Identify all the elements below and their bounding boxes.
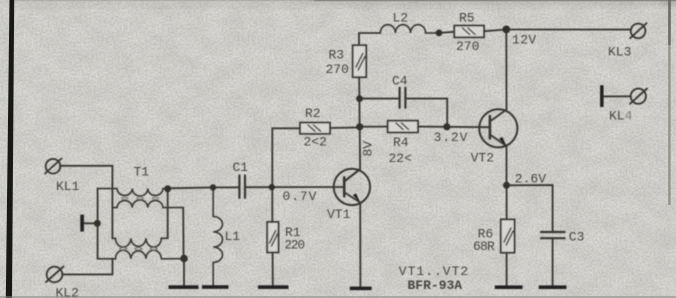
wire R6 to ground bbox=[506, 253, 508, 286]
ground under T1 bbox=[169, 285, 199, 289]
inductor L2 bbox=[380, 25, 439, 33]
capacitor C4 wire right bbox=[405, 99, 447, 127]
ground (sideways) at KL4 bbox=[600, 85, 604, 107]
resistor R1 bbox=[267, 187, 278, 285]
svg-text:R2: R2 bbox=[305, 106, 321, 121]
wire R3 column top bbox=[359, 33, 380, 45]
node 12V dot bbox=[502, 26, 510, 34]
svg-text:C4: C4 bbox=[392, 73, 408, 88]
ground under VT1 bbox=[350, 287, 372, 291]
svg-text:270: 270 bbox=[456, 39, 479, 54]
scan edge: left black bar bbox=[6, 0, 14, 298]
wire R6 stem bbox=[506, 185, 508, 219]
svg-text:L2: L2 bbox=[393, 10, 409, 25]
transistor VT1 bbox=[334, 169, 370, 205]
transistor VT2 bbox=[479, 109, 517, 147]
wire KL1 to T1 bbox=[60, 166, 112, 239]
node B dot bbox=[180, 255, 188, 263]
svg-text:270: 270 bbox=[326, 62, 349, 77]
scan edge: top-right corner patch bbox=[664, 0, 676, 5]
svg-text:C1: C1 bbox=[233, 160, 249, 175]
wire collector VT1 bbox=[345, 127, 361, 181]
transformer T1 winding 1a (upper-top) bbox=[98, 189, 168, 196]
wire R2 riser bbox=[272, 128, 300, 186]
wire node to R4 bbox=[360, 126, 388, 128]
node 3.2V dot bbox=[443, 123, 450, 130]
svg-text:KL2: KL2 bbox=[56, 285, 79, 298]
wire 2.6V node to C3 bbox=[507, 185, 553, 232]
resistor R2 bbox=[300, 123, 330, 134]
svg-text:R5: R5 bbox=[459, 10, 475, 25]
svg-text:8V: 8V bbox=[361, 141, 376, 157]
wire R3 bottom to junctions bbox=[358, 77, 360, 127]
wire VT2 emitter down bbox=[506, 146, 508, 185]
svg-text:220: 220 bbox=[285, 238, 305, 252]
capacitor C3 bbox=[541, 232, 565, 238]
svg-text:VT1..VT2: VT1..VT2 bbox=[399, 264, 469, 279]
resistor R4 bbox=[388, 121, 418, 133]
wire node B to ground bbox=[183, 259, 185, 286]
svg-text:VT2: VT2 bbox=[471, 151, 494, 166]
svg-text:22<: 22< bbox=[389, 151, 413, 166]
wire main base rail bbox=[168, 187, 240, 188]
wire R4 to VT2 base bbox=[418, 126, 490, 129]
ground under R1 bbox=[258, 285, 289, 289]
wire node A drop bbox=[167, 189, 169, 238]
node base VT1 dot bbox=[269, 184, 275, 190]
svg-text:BFR-93A: BFR-93A bbox=[408, 278, 463, 293]
wire VT2 collector bbox=[490, 30, 506, 122]
wire VT1 emitter to ground bbox=[359, 202, 361, 286]
ground under R6 bbox=[495, 285, 523, 289]
svg-text:T1: T1 bbox=[134, 164, 150, 179]
ground (sideways) at T1 tap bbox=[80, 215, 84, 232]
terminal KL2 bbox=[46, 267, 64, 283]
T1 core scan artifacts upper bbox=[122, 197, 159, 199]
svg-text:12V: 12V bbox=[512, 33, 537, 48]
node 2.6V dot bbox=[503, 182, 510, 189]
inductor L1 bbox=[213, 187, 222, 285]
svg-text:VT1: VT1 bbox=[327, 207, 351, 222]
svg-text:R3: R3 bbox=[329, 47, 345, 62]
terminal KL3 bbox=[630, 23, 646, 38]
terminal KL4 bbox=[630, 89, 647, 104]
ground under C3 bbox=[539, 285, 567, 289]
resistor R5 bbox=[454, 26, 484, 38]
transformer T1 winding 2b (lower-bottom) bbox=[98, 250, 184, 259]
node A dot bbox=[164, 185, 171, 192]
scan edge: bottom line bbox=[0, 296, 676, 297]
capacitor C4 wire left bbox=[360, 98, 400, 100]
node tap dot bbox=[94, 220, 101, 227]
svg-text:L1: L1 bbox=[225, 229, 241, 244]
resistor R3 bbox=[353, 45, 367, 77]
svg-text:0.7V: 0.7V bbox=[283, 189, 318, 204]
transformer T1 winding 1b (upper-bottom) bbox=[112, 200, 183, 208]
capacitor C1 bbox=[239, 176, 245, 198]
svg-text:2<2: 2<2 bbox=[304, 135, 327, 150]
wire L2 to R5 bbox=[439, 32, 454, 33]
resistor R6 bbox=[501, 219, 515, 252]
transformer T1 winding 2a (lower-top) bbox=[112, 238, 167, 247]
svg-text:KL3: KL3 bbox=[608, 44, 631, 59]
scan edge: top thin line bbox=[14, 0, 314, 1]
wire tap vertical bbox=[97, 188, 99, 258]
svg-text:3.2V: 3.2V bbox=[434, 130, 469, 145]
wire KL4 bbox=[604, 95, 631, 97]
wire R5 to 12V rail and KL3 bbox=[484, 30, 631, 32]
svg-text:KL1: KL1 bbox=[56, 179, 80, 194]
node L1 top dot bbox=[210, 184, 216, 190]
capacitor C4 bbox=[400, 88, 406, 108]
wire R2 to node bbox=[330, 126, 360, 129]
svg-text:R4: R4 bbox=[393, 135, 409, 150]
ground under L1 bbox=[202, 285, 229, 289]
svg-text:C3: C3 bbox=[569, 229, 585, 244]
svg-text:68R: 68R bbox=[473, 239, 495, 254]
node C4-left dot bbox=[356, 95, 363, 102]
wire upper-bottom right drop bbox=[182, 208, 184, 259]
svg-text:KL4: KL4 bbox=[609, 109, 633, 124]
wire C3 to ground bbox=[552, 238, 554, 285]
wire KL2 riser bbox=[62, 259, 112, 275]
scan edge: right faint line bbox=[668, 0, 670, 205]
svg-text:2.6V: 2.6V bbox=[515, 172, 546, 187]
terminal KL1 bbox=[45, 159, 62, 174]
node collector VT1 dot bbox=[356, 123, 363, 130]
node L2-R5 dot bbox=[436, 30, 443, 37]
wire tap to ground bar bbox=[84, 222, 97, 224]
T1 core scan artifacts lower bbox=[120, 247, 157, 250]
